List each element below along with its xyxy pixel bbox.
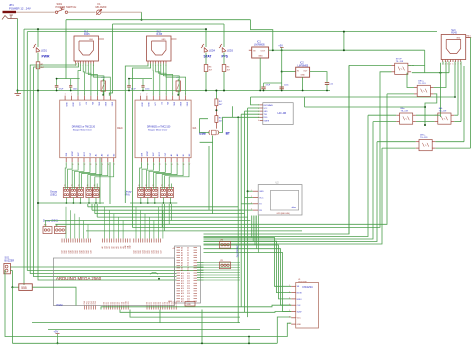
buzzer SG1 body [4,263,10,273]
svg-text:D7: D7 [162,302,164,304]
svg-text:D19: D19 [187,296,190,298]
wire IC2 GND down [302,77,304,90]
wire band y237.5 to DS3234 SS [204,238,292,287]
connector JP1 body [3,11,17,13]
wire DEC- left pins west [377,141,416,143]
svg-text:JP8: JP8 [220,240,223,242]
node gnd rail dots [259,90,261,92]
svg-text:D20: D20 [187,298,190,300]
wire y97 trunk east [251,96,456,98]
svg-text:5: 5 [452,64,453,66]
wire bottom y322.6 [32,322,240,324]
connector SL3 GND1 line [466,37,471,39]
svg-text:D17: D17 [187,291,190,293]
wire GND rail y90.5 [18,90,331,92]
svg-text:D8: D8 [165,302,167,304]
wire HC-06 key [251,97,260,105]
svg-text:D2: D2 [108,302,110,304]
jumper header (RA) 5 [167,188,173,198]
jumper header (DEC) 1 [63,188,69,198]
power jack symbol [2,16,11,20]
svg-text:SLP: SLP [153,152,155,156]
jumper header (DEC) 2 [70,188,76,198]
wire x343.9 bus tap down [343,32,345,51]
wire cap top rail [57,78,80,80]
wire mesh h y224.3 [55,94,387,224]
svg-text:VCC: VCC [297,318,302,320]
wire RA+ right1 [416,114,441,116]
wire header (DEC) 2 pins [71,184,73,190]
wire header (DEC) 1 pins [64,184,66,190]
component C13 box bottom [185,302,195,307]
connector SL3 RJ45 body [441,35,466,60]
wire bottom y312.3 [120,310,291,313]
wire IC1 IN stub [249,49,252,51]
svg-text:ARDUINO MEGA 2560: ARDUINO MEGA 2560 [56,276,102,281]
wire LED3 to resistor [223,53,225,65]
fuse F1 symbol [97,10,101,14]
wire trunk x247 [247,108,249,317]
wire band y234 to x349 trunk [204,65,350,234]
wire mesh drop to y213.6 [94,204,96,214]
svg-text:2: 2 [445,64,446,66]
svg-text:D48: D48 [90,250,92,253]
wire x160 drop [159,310,161,323]
wire IC1 OUT to +5V [269,49,282,51]
wire mesh x110 v [109,162,111,204]
svg-text:STEP: STEP [72,150,74,156]
wire x304 up [304,97,306,107]
node R4 R5 [215,109,217,111]
wire trunk x33 down and east [34,63,177,277]
node gnd rail junction [17,90,19,92]
svg-text:Stepper Motor Driver: Stepper Motor Driver [148,129,168,132]
svg-text:PB3: PB3 [91,301,93,304]
wire 12V from JP1 to SW1 [16,11,55,13]
svg-text:TIL-119: TIL-119 [396,61,404,63]
wire x38 trunk below decay [38,203,177,280]
wire HC-06 vcc [248,107,260,109]
svg-text:47uF: 47uF [131,89,136,91]
LED LED4 wire top [205,29,207,47]
svg-text:LM78M05: LM78M05 [254,44,265,47]
svg-text:(DEC): (DEC) [50,194,57,197]
wire header (RA) 5 pins [168,184,170,190]
svg-text:POWER 12 ..24V: POWER 12 ..24V [9,6,31,10]
module RA stepper driver box [135,100,191,158]
optocoupler RA+ body [400,113,413,124]
wire bus x112.5 down to driver pin [109,24,112,96]
module GPS inner box [270,191,298,211]
node cap rail [56,90,58,92]
wire band y241.5 [204,142,378,242]
wire GPS rx west [238,209,253,211]
wire F1 to corner [101,11,141,13]
svg-text:100n: 100n [284,85,288,87]
svg-text:D11: D11 [128,301,130,304]
module RA bottom pins [141,158,143,163]
svg-text:GND: GND [264,111,269,113]
wire 12V bus y19.7 [66,19,251,21]
wire gps area nested corners [251,216,253,238]
svg-text:D8: D8 [121,302,123,304]
svg-text:Stepper Motor Driver: Stepper Motor Driver [73,129,93,132]
node +5V bottom [57,342,59,344]
wire SL3 gnd right edge down [470,38,472,149]
svg-text:PB0: PB0 [84,301,86,304]
wire HC-06 rxd junction [237,116,239,118]
svg-text:GND: GND [456,38,461,40]
wire DS3234 VCC west [277,317,291,343]
svg-text:D1: D1 [149,302,151,304]
svg-text:MISO: MISO [297,299,303,301]
svg-text:LED1: LED1 [41,50,48,53]
wire R4 to R5 [215,106,217,116]
wire SL2 pin1 west trunk [125,64,148,204]
wire bus y31.6 full width [27,31,437,33]
svg-text:D3: D3 [187,255,189,257]
svg-text:RA: RA [193,126,197,130]
svg-text:D9: D9 [124,302,126,304]
node LED4 top [205,28,207,30]
svg-text:LED4: LED4 [209,50,216,53]
svg-text:OUT: OUT [261,50,266,52]
wire mesh h y206.8 [88,206,238,208]
module U1 pins [291,285,296,287]
wire fanout SL2 to RA driver [152,64,154,96]
svg-text:D6: D6 [160,302,162,304]
IC2 body [296,67,310,77]
module HC-06 pins [260,104,263,106]
node 12V bus junction [141,19,143,21]
wire SL2 pin2 west trunk [132,64,150,228]
resistor sense trimmer [176,81,180,91]
wire 12V down to bus [141,12,143,20]
wire mesh drop to y210.2 [91,204,93,210]
svg-text:GND: GND [258,55,263,57]
svg-text:PWR: PWR [42,55,50,59]
wire GPS vcc west [245,197,253,199]
jumper header (RA) 3 [152,188,158,198]
wire R1 down to decay rail [37,69,39,203]
svg-text:2: 2 [71,94,72,96]
svg-text:DS3234: DS3234 [303,285,314,289]
node bottom rail junctions [201,342,203,344]
jumper JP9 header [219,262,230,269]
node cap rail [128,90,130,92]
wire header (RA) 3 pins [153,184,155,190]
svg-text:D5: D5 [187,260,189,262]
wire IC2 OUT east [310,72,327,81]
resistor sense trimmer [101,81,105,91]
svg-text:D18: D18 [187,293,190,295]
component 555 box [19,284,33,291]
svg-text:555: 555 [21,286,27,290]
wire trunk x24 down [23,29,25,285]
node x425 dots [424,106,426,108]
wire buzzer pin1 east long [10,266,203,268]
wire DEC+ left2 west [387,93,414,95]
svg-text:PGM: PGM [57,303,63,307]
module ARDUINO bottom cluster 3 [146,306,148,310]
wire +5V trunk down [281,50,283,71]
wire mesh h y217.1 [97,216,247,218]
wire 555 left [12,286,18,288]
wire mesh h y210.2 [92,209,241,211]
LED LED3 wire top [223,24,225,47]
wire stop right2 east y72.7 [412,72,449,74]
wire jp6 tap [45,221,47,227]
wire decay DEC rail [38,202,104,204]
wire +5V to SL3 area [282,49,425,51]
svg-text:D10: D10 [126,301,128,304]
module DEC bottom pins [65,158,67,163]
svg-text:SQW: SQW [297,311,302,313]
wire bt down trunk [200,136,213,143]
IC1 LM78M05 body [252,47,269,58]
resistor below LED4 [204,65,208,72]
wire cap top rail right [264,82,282,84]
module ARDUINO top pin cluster A [61,239,63,243]
svg-text:D0: D0 [104,302,106,304]
LED LED1 symbol [36,48,40,53]
LED LED3 symbol [222,48,226,53]
wire trunk x27.3 down and east [27,32,203,271]
capacitor ceramic symbol [69,85,72,87]
svg-text:+5V: +5V [54,330,59,334]
svg-text:PB5: PB5 [95,301,97,304]
node stop right junction [439,72,441,74]
wire RA- right pins east [454,114,458,116]
wire mesh h y227.4 stop line [132,72,391,228]
svg-text:47uF: 47uF [266,85,271,87]
connector SL1 pins [75,61,77,64]
wire cap top rail [129,78,152,80]
svg-text:GND: GND [140,102,142,107]
optocoupler RA+ pins [396,114,399,116]
resistor R5 body [215,116,218,123]
svg-text:GPS (NEO-6M): GPS (NEO-6M) [277,213,291,215]
svg-text:GND: GND [162,39,167,41]
svg-text:D5: D5 [115,302,117,304]
svg-text:GND: GND [147,102,149,107]
wire R5 to jumper [215,122,217,128]
wire DEC+ right2 down [425,94,437,125]
wire DEC driver bottom fanout [65,162,66,183]
wire LED1 to R1 [37,53,39,62]
wire jp7 tap [56,224,58,226]
svg-text:D12: D12 [187,278,190,280]
wire x232 up [231,106,233,117]
svg-text:D11: D11 [171,301,173,304]
optocoupler STOP pins [392,64,395,66]
wire mesh h y220.5 [45,220,251,222]
svg-text:MF-R200: MF-R200 [96,5,107,9]
wire +5V down to caps [281,72,283,87]
wire mesh drop to y217.1 [96,204,98,217]
wire bottom y317.1 [130,310,240,318]
switch SW1 symbol [55,11,57,13]
svg-text:GND: GND [65,102,67,107]
wire bus corner x66 down [65,20,67,79]
svg-text:TIL-119: TIL-119 [439,111,447,113]
svg-text:D13: D13 [187,280,190,282]
svg-text:GND: GND [259,191,264,193]
svg-text:JP9: JP9 [220,260,223,262]
jumper header (DEC) 4 [86,188,92,198]
resistor R1 body [36,62,40,69]
svg-text:D1: D1 [106,302,108,304]
wire DEC+ right to SL3 [434,62,446,88]
svg-text:3: 3 [447,64,448,66]
wire stop corner from +5V line [424,50,426,72]
wire band y241.2 to DS3234 MOSI [204,241,292,292]
capacitor C12 [325,82,329,84]
svg-text:4: 4 [450,64,451,66]
svg-text:LED3: LED3 [227,50,234,53]
wire stop left 1 [349,64,392,66]
capacitor ceramic symbol [141,85,144,87]
svg-text:GND: GND [301,75,306,77]
svg-text:D47: D47 [160,250,162,253]
connector SL1 RJ45 body [74,36,99,61]
svg-text:A12: A12 [129,245,132,248]
wire GPS tx west [241,203,253,205]
wire +5V to IC2 IN [282,71,296,73]
module DEC top pins [64,96,66,101]
svg-text:PB1: PB1 [86,301,88,304]
svg-text:GND1: GND1 [466,35,471,37]
wire RA driver bottom fanout [140,162,142,183]
svg-text:D0: D0 [187,247,189,249]
wire header (DEC) 3 pins [78,184,80,190]
wire RA+ right to RA- left [416,121,435,123]
wire x249 stub [248,337,250,344]
svg-text:TIL-119: TIL-119 [418,83,426,85]
node LED1 top [37,28,39,30]
svg-text:MOSI: MOSI [297,293,303,295]
wire trunk x30 down and east [30,63,176,274]
svg-text:D4: D4 [156,302,158,304]
optocoupler RA- body [438,113,451,124]
module GPS pins [253,190,258,192]
jumper header (DEC) 3 [77,188,83,198]
wire buzzer pin2 down [10,271,12,288]
wire header (RA) 1 pins [139,184,141,190]
svg-text:HC-06: HC-06 [278,111,287,115]
resistor below LED3 [222,65,226,72]
svg-text:TIL-119: TIL-119 [401,111,409,113]
jumper header (DEC) 5 [93,188,99,198]
svg-text:STAT: STAT [204,55,212,59]
wire buzzer down to rail [11,287,13,343]
svg-text:DIR: DIR [141,152,143,156]
wire x440 down [439,63,441,117]
wire bus y29.1 [24,28,206,30]
svg-text:DEC: DEC [117,126,123,130]
svg-text:VCC: VCC [259,197,264,199]
wire R4 top [215,91,217,99]
ground symbol [15,93,22,95]
module ARDUINO right pin column left [177,247,181,249]
wire fanout SL1 to DEC driver [78,64,81,96]
node decay DEC rail [37,202,39,204]
node +5V IC2 junction [281,71,283,73]
svg-text:PPS: PPS [222,55,228,59]
wire RA+ left pins west [368,114,396,116]
svg-text:+5V: +5V [278,43,283,47]
svg-text:D10: D10 [169,301,171,304]
wire 555 right [32,287,76,305]
svg-text:D11: D11 [187,275,190,277]
wire band y244 [204,148,383,244]
svg-text:Decay (RA): Decay (RA) [236,245,239,258]
wire DS3234 GND route [5,270,291,337]
connector SL2 RJ45 body [147,36,172,61]
wire HC-06 gnd [245,110,260,112]
wire mesh h y230.9 [86,230,302,232]
module ARDUINO top pin cluster mid [101,239,103,243]
node IC1 out [272,49,274,51]
svg-text:STEP: STEP [147,150,149,156]
connector SL3 pins [442,60,444,63]
LED LED4 symbol [204,48,208,53]
wire band y245 to DS3234 MISO [204,245,292,299]
jumper header (RA) 2 [145,188,151,198]
svg-text:1: 1 [75,65,76,67]
svg-text:D10: D10 [187,273,190,275]
wire resistor LED3 to gnd rail [223,72,225,91]
svg-text:D5: D5 [158,302,160,304]
jumper header (RA) 4 [160,188,166,198]
wire header (DEC) 5 pins [94,184,96,190]
svg-text:D16: D16 [187,288,190,290]
wire SL3 pin verticals [442,62,444,65]
svg-text:D4: D4 [187,258,189,260]
capacitor C10 [261,86,265,88]
svg-text:TIL-119: TIL-119 [420,137,428,139]
svg-text:PB2: PB2 [89,301,91,304]
wire mesh h y213.6 [95,213,245,215]
svg-text:D13: D13 [176,301,178,304]
svg-text:BT: BT [226,132,230,136]
wire GPS gnd west [248,190,253,192]
svg-text:GND: GND [89,39,94,41]
wire header (DEC) 4 pins [87,184,89,190]
wire trunk x238 [237,117,239,322]
module ARDUINO top pin cluster B [133,239,135,243]
svg-text:2: 2 [146,94,147,96]
svg-text:D14: D14 [187,283,190,285]
svg-text:D9: D9 [167,302,169,304]
wire DEC+ feeds [412,64,414,66]
wire header (RA) 2 pins [146,184,148,190]
wire bottom rail y343.3 [12,342,277,344]
svg-text:D12: D12 [174,301,176,304]
svg-text:ublox: ublox [292,207,297,209]
jumper header (RA) 1 [138,188,144,198]
svg-text:D3: D3 [153,302,155,304]
module ARDUINO bottom cluster 2 [103,306,105,310]
wire y107 trunk [305,106,426,108]
capacitor C11 [281,87,283,91]
wire resistor LED4 to gnd rail [205,72,207,91]
svg-text:D6: D6 [187,263,189,265]
wire SW1 to F1 [68,11,96,13]
svg-text:STATE: STATE [264,119,270,122]
wire 12V bus to IC1 [251,20,273,51]
svg-text:47uF: 47uF [59,89,64,91]
